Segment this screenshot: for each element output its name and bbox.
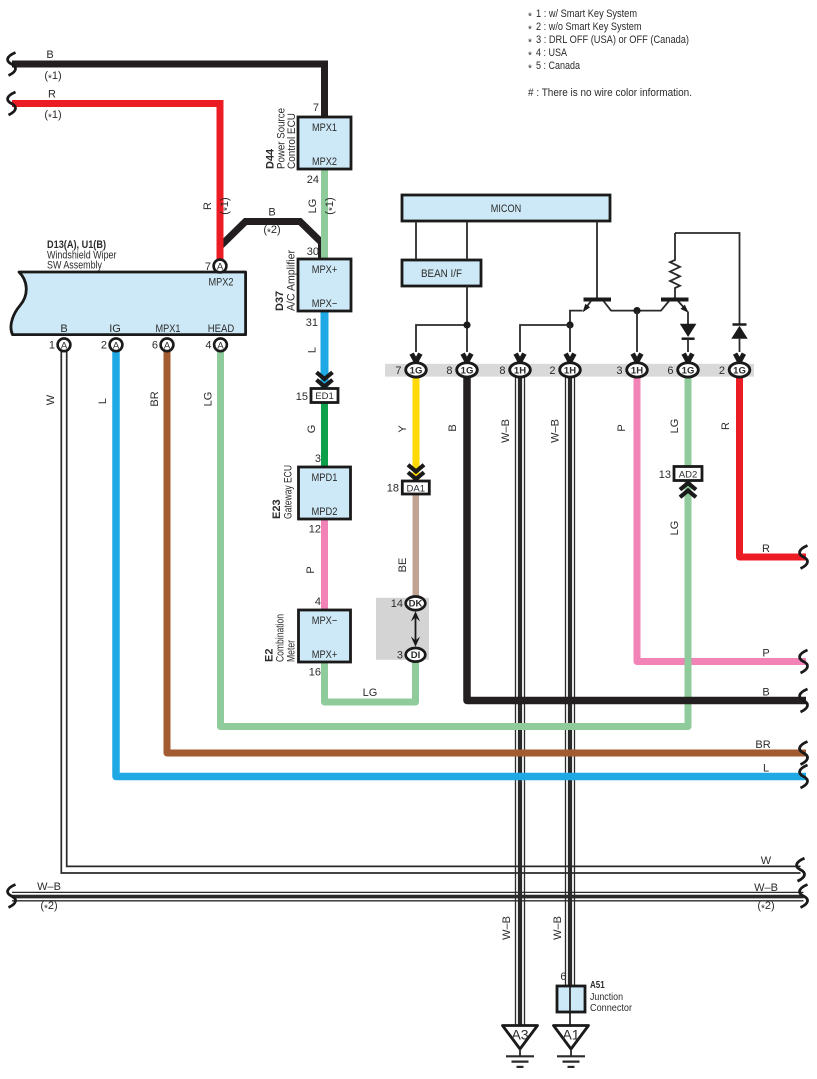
svg-text:4: 4 [315,596,321,608]
svg-text:Control ECU: Control ECU [286,113,298,169]
chevron arrows into ED1 [317,372,333,386]
box D13 Windshield Wiper SW Assembly [11,272,246,335]
svg-text:E23: E23 [271,499,283,519]
svg-text:R: R [720,422,732,430]
wire break curl left B [8,53,16,76]
box D37 A/C Amplifier [298,259,351,311]
box MICON [402,195,610,221]
wire break curl right BR [800,742,808,765]
designator D44 name rotated [276,108,299,169]
wire L D13 pin2 to right edge [116,352,806,777]
arrow into 1G pin8 [463,354,472,362]
svg-text:1 : w/ Smart Key System: 1 : w/ Smart Key System [536,8,637,20]
box E2 Combination Meter [299,610,351,662]
chevron arrows up into AD2 [680,483,696,497]
svg-text:*: * [528,12,532,23]
svg-text:3: 3 [616,365,622,377]
svg-text:DI: DI [411,650,421,661]
splice box DA1 [402,481,429,494]
wire diode D1 to 1G pin6 [687,339,689,352]
connector oval 1G pin7 [406,363,427,377]
arrow into 1H pin2 [566,354,575,362]
svg-text:14: 14 [391,598,403,610]
ground A3 earth symbol [506,1049,534,1067]
svg-text:30: 30 [307,246,319,258]
svg-text:BR: BR [755,739,770,751]
svg-text:2 : w/o Smart Key System: 2 : w/o Smart Key System [536,21,642,33]
svg-text:R: R [762,543,770,555]
wire break curl right P [800,650,808,673]
transistor Q2 emitter with arrow [678,301,691,315]
svg-text:B: B [268,207,275,219]
svg-text:Connector: Connector [590,1003,633,1014]
svg-text:3: 3 [397,650,403,662]
arrow into 1G pin7 [412,354,421,362]
pin circle A1 on D13 bottom [58,338,71,351]
chevron arrows into DA1 [408,465,424,479]
svg-text:L: L [763,763,769,775]
svg-text:# : There is no wire color inf: # : There is no wire color information. [528,87,692,99]
svg-text:AD2: AD2 [679,469,697,480]
wire W-B through A51 to ground A1 [569,986,571,1026]
wire break curl right R [800,546,808,569]
svg-text:B: B [762,687,769,699]
pin circle A6 on D13 bottom [161,338,174,351]
svg-text:*: * [528,64,532,75]
wire break curl right W [797,858,805,881]
svg-text:*: * [528,51,532,62]
svg-text:W–B: W–B [500,419,512,443]
svg-text:1G: 1G [410,365,423,376]
svg-text:W–B: W–B [552,916,564,940]
splice box ED1 [311,389,338,403]
box BEAN I/F [402,260,481,286]
svg-text:*: * [528,38,532,49]
wire junction to 1H pin2 [569,325,571,352]
svg-text:24: 24 [307,174,319,186]
diode D1 pointing down [680,324,697,339]
svg-text:B: B [46,49,53,61]
svg-text:A: A [217,340,224,351]
connector oval DI pin3 [406,648,426,662]
svg-text:A: A [113,340,120,351]
svg-text:A: A [217,262,224,273]
svg-text:16: 16 [309,667,321,679]
designator E2 name rotated [275,614,298,662]
svg-text:1G: 1G [733,365,746,376]
connector oval 1G pin6 [678,363,699,377]
svg-text:IG: IG [109,323,121,335]
svg-text:BE: BE [397,558,409,573]
transistor Q2 base bar [661,298,689,302]
svg-text:DA1: DA1 [407,483,425,494]
wire MICON to BEAN I/F right [466,221,468,260]
wire break curl right W-B [800,885,808,908]
svg-text:MPX+: MPX+ [312,264,338,276]
svg-text:1H: 1H [514,365,526,376]
wire W-B 1H pin2 down to A51 (white w/ black stripe) [566,377,575,986]
svg-text:P: P [305,566,317,573]
transistor Q1 emitter with arrow [580,301,591,314]
resistor R1 [670,233,680,298]
wire MICON to transistor Q1 base [596,221,598,298]
ground A1 triangle [554,1026,589,1050]
svg-text:B: B [447,424,459,431]
label pin numbers on connector bar [395,365,725,377]
svg-text:L: L [307,347,319,353]
wire LG (*1) D44 pin24 to D37 pin30 [321,169,328,260]
svg-text:DK: DK [409,599,423,610]
wire resistor top to diode D2 column [675,233,740,324]
legend asterisks [528,12,532,75]
svg-text:MPX−: MPX− [312,298,338,310]
wire BE DA1 to DK [413,494,420,599]
svg-text:MPX1: MPX1 [312,122,337,134]
svg-text:A/C Amplifier: A/C Amplifier [286,250,298,311]
wire L D37 pin31 to ED1 [321,311,329,388]
svg-text:4: 4 [205,340,211,352]
wire B (*2) branch red to D37 pin 30 [220,222,322,260]
svg-text:6: 6 [667,365,673,377]
wire Q1 emitter to junction [570,311,583,325]
svg-text:LG: LG [203,392,215,407]
pin circle A4 on D13 bottom [214,338,227,351]
svg-text:W–B: W–B [754,882,778,894]
svg-text:P: P [762,648,769,660]
svg-text:LG: LG [307,199,319,214]
svg-text:Gateway ECU: Gateway ECU [283,465,295,519]
svg-text:6: 6 [560,971,566,983]
svg-text:7: 7 [205,261,211,273]
svg-text:31: 31 [306,317,318,329]
wire MICON to BEAN I/F left [415,221,417,260]
ground A1 earth symbol [557,1049,585,1067]
wire LG E2 pin16 to DI [325,660,416,702]
svg-text:1: 1 [49,340,55,352]
designator D13 title [47,239,117,272]
svg-text:BR: BR [149,391,161,406]
wire W-B 1H pin8 down to ground A3 (white w/ black stripe) [516,377,525,1025]
svg-text:A: A [164,340,171,351]
svg-text:7: 7 [395,365,401,377]
pin circle A7 on D13 top [214,260,227,273]
junction block gray background DK/DI [376,598,429,660]
connector oval 1H pin3 [627,363,648,377]
svg-text:D37: D37 [274,291,286,311]
double arrow between DK and DI [411,611,420,647]
wire branch to 1G pin7 [416,325,467,352]
svg-text:MPX2: MPX2 [312,156,337,168]
wire Q2 emitter to diode D1 [687,312,689,325]
svg-text:A: A [61,340,68,351]
wire G ED1 to E23 pin3 [321,403,328,468]
pin circle A2 on D13 bottom [110,338,123,351]
svg-text:Y: Y [397,425,409,433]
connector oval 1H pin2 [560,363,581,377]
svg-text:MPX1: MPX1 [156,323,181,335]
arrow into 1G pin2 [735,354,744,362]
svg-text:MICON: MICON [491,203,522,215]
wire B (*1) top black [12,64,325,117]
node junction collector line [633,307,640,314]
svg-text:1G: 1G [682,365,695,376]
wire Q1 collector to Q2 [611,310,662,312]
connector oval 1G pin2b [729,363,750,377]
arrow into 1H pin3 [633,354,642,362]
node junction emitter [566,321,573,328]
wire LG 1G pin6 to D13 pin4 HEAD [221,352,689,727]
svg-text:W: W [761,855,772,867]
svg-text:HEAD: HEAD [208,323,235,335]
svg-text:MPX+: MPX+ [312,649,338,661]
wire Y 1G pin7 to DA1 [413,377,420,481]
svg-text:L: L [97,398,109,404]
svg-text:MPD1: MPD1 [312,472,338,484]
wire diode D2 to 1G pin2 [739,339,741,352]
svg-text:1G: 1G [461,365,474,376]
svg-text:BEAN I/F: BEAN I/F [421,268,462,280]
designator A51 title [590,980,633,1014]
svg-text:MPD2: MPD2 [312,506,338,518]
svg-text:12: 12 [309,524,321,536]
transistor Q2 left lead [661,301,669,311]
box A51 Junction Connector [557,986,585,1012]
svg-text:15: 15 [296,391,308,403]
svg-text:LG: LG [669,419,681,434]
svg-text:2: 2 [549,365,555,377]
svg-text:5 : Canada: 5 : Canada [536,60,581,72]
svg-text:R: R [202,202,214,210]
arrow into 1G pin6 [684,354,693,362]
wire R (*1) from left to D13 pin 7 [12,104,220,263]
wire junction to 1H pin3 [636,311,638,352]
svg-text:2: 2 [101,340,107,352]
svg-text:R: R [48,89,56,101]
wire B 1G pin8 to right edge [467,377,806,701]
svg-text:18: 18 [387,483,399,495]
svg-text:W: W [45,394,57,405]
svg-text:MPX−: MPX− [312,615,338,627]
svg-text:1H: 1H [631,365,643,376]
svg-text:13: 13 [659,469,671,481]
svg-text:8: 8 [446,365,452,377]
svg-text:MPX2: MPX2 [209,277,234,289]
svg-text:LG: LG [363,687,378,699]
svg-text:SW Assembly: SW Assembly [47,260,102,272]
connector oval 1G pin8 [457,363,478,377]
wire junction to 1H pin8 [520,325,570,352]
svg-text:Junction: Junction [590,992,623,1003]
svg-text:LG: LG [669,521,681,536]
svg-text:P: P [616,424,628,431]
svg-text:B: B [60,323,67,335]
wire break curl left R [8,92,16,115]
svg-text:3 : DRL OFF (USA) or OFF (Cana: 3 : DRL OFF (USA) or OFF (Canada) [536,34,689,46]
wire BEAN I/F down to 1G pin8 [466,286,468,352]
svg-text:3: 3 [315,453,321,465]
svg-text:W–B: W–B [550,419,562,443]
svg-text:6: 6 [152,340,158,352]
diode D2 pointing up [731,325,747,339]
svg-text:G: G [306,425,318,434]
ground A3 triangle [503,1026,538,1050]
svg-text:2: 2 [719,365,725,377]
wire break curl right L [800,765,808,788]
wire W-B (*2) bottom horizontal (white w/ black stripe) [12,892,804,900]
svg-text:4 : USA: 4 : USA [536,47,568,59]
svg-text:ED1: ED1 [315,391,333,402]
arrow into 1H pin8 [516,354,525,362]
wire BR D13 pin6 to right edge [167,352,806,754]
svg-text:A1: A1 [562,1027,579,1043]
svg-text:Meter: Meter [286,640,298,662]
svg-text:W–B: W–B [501,916,513,940]
splice box AD2 [674,467,702,481]
svg-text:8: 8 [499,365,505,377]
transistor Q1 collector [604,301,612,311]
wire break curl left W-B [8,885,16,908]
wire P 1H pin3 to right edge [637,377,806,662]
wire P E23 pin12 to E2 pin4 [321,519,328,611]
node junction BEAN line [463,321,470,328]
box E23 Gateway ECU [299,467,351,519]
connector bar 1G/1H gray band [385,364,754,377]
svg-text:*: * [528,25,532,36]
svg-text:A3: A3 [511,1027,528,1043]
box D44 Power Source Control ECU [298,117,351,169]
svg-text:1H: 1H [564,365,576,376]
wire R 1G pin2 to right edge [740,377,807,557]
svg-text:A51: A51 [590,980,605,991]
svg-text:W–B: W–B [37,881,61,893]
svg-text:7: 7 [313,102,319,114]
wire W D13 pin1 to bottom right (white wire) [61,352,800,874]
transistor Q1 base bar [584,298,612,302]
connector oval 1H pin8 [510,363,531,377]
wire break curl right B [800,689,808,712]
connector oval DK pin14 [406,597,426,611]
